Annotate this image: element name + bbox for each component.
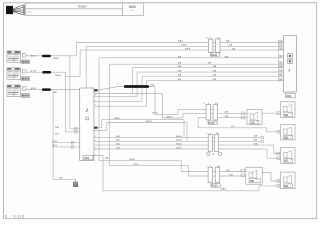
radio label box 261 [83, 155, 93, 159]
svg-text:3-113: 3-113 [14, 214, 25, 218]
svg-text:40A B: 40A B [221, 188, 227, 191]
svg-text:891: 891 [284, 136, 289, 139]
shielded section overdraw [124, 85, 149, 88]
svg-text:35A: 35A [116, 143, 120, 146]
amplifier icons [288, 54, 293, 58]
svg-text:25B B: 25B B [166, 116, 172, 118]
svg-text:16A B: 16A B [178, 39, 184, 42]
svg-text:35B: 35B [116, 147, 120, 149]
svg-text:180: 180 [250, 179, 255, 183]
amplifier pin bracket [278, 40, 280, 82]
speaker 180 rear [246, 167, 262, 184]
amplifier to rear harness S-links [99, 58, 284, 176]
radio right pins nest to amplifier [94, 68, 284, 107]
amplifier unit 319 [284, 36, 297, 92]
svg-text:R107: R107 [209, 121, 216, 125]
svg-text:179: 179 [250, 121, 255, 124]
svg-text:NT 8C: NT 8C [26, 12, 33, 14]
svg-text:319: 319 [286, 94, 291, 98]
tweeter 891 (right col 2) [281, 124, 296, 140]
svg-text:34B B: 34B B [146, 121, 152, 123]
svg-text:35B: 35B [213, 79, 217, 81]
svg-text:34B: 34B [213, 71, 217, 73]
connector block 863 (lower left feed) [7, 85, 30, 97]
wire radio pin2 to connector R107 [94, 94, 206, 119]
svg-text:34B: 34B [254, 140, 258, 142]
svg-text:R210: R210 [211, 53, 218, 57]
svg-text:34B: 34B [178, 71, 182, 73]
svg-text:25A: 25A [151, 84, 155, 87]
svg-text:35A B: 35A B [176, 143, 182, 146]
svg-text:25A B: 25A B [152, 112, 158, 115]
svg-text:890: 890 [284, 114, 289, 117]
svg-text:36B: 36B [208, 63, 212, 65]
radio top pin to antenna line [86, 46, 283, 88]
radio left pin boxes [75, 127, 77, 130]
svg-text:20A B: 20A B [53, 57, 59, 60]
speaker 179 front right [247, 109, 262, 124]
svg-text:35A: 35A [178, 74, 182, 77]
svg-text:34A: 34A [254, 135, 258, 138]
svg-text:31 B: 31 B [53, 141, 58, 143]
tweeter 890 (right col 1) [281, 102, 296, 118]
svg-text:25B: 25B [225, 116, 229, 118]
row C out wires [220, 172, 281, 182]
svg-text:20A: 20A [55, 126, 59, 129]
svg-text:5: 5 [95, 136, 96, 138]
harness logo [6, 5, 24, 16]
svg-text:261: 261 [84, 156, 89, 160]
svg-text:MH: MH [60, 178, 64, 180]
svg-text:892: 892 [284, 160, 289, 163]
svg-text:3: 3 [95, 148, 96, 150]
stub wire 38 into radio [52, 146, 80, 148]
radio knob circle [86, 117, 89, 120]
svg-text:♪: ♪ [85, 107, 88, 114]
svg-text:8: 8 [5, 214, 7, 218]
connector block 862 (middle left feed) [7, 68, 30, 81]
radio raised wires to R212 [94, 119, 187, 141]
svg-text:X64: X64 [129, 4, 137, 9]
svg-text:35B B: 35B B [176, 147, 182, 149]
svg-text:25A: 25A [225, 111, 229, 114]
svg-text:37A B: 37A B [129, 158, 135, 161]
shielded section on pin1 wire [124, 85, 149, 88]
svg-text:607 A: 607 A [30, 55, 36, 58]
svg-text:34A: 34A [178, 65, 182, 68]
svg-text:7: 7 [95, 100, 96, 102]
svg-text:34B: 34B [116, 140, 120, 142]
svg-text:35A: 35A [254, 142, 258, 145]
svg-text:6: 6 [95, 105, 96, 107]
radio bottom loop wire to rear tweeter [94, 156, 281, 191]
svg-text:4: 4 [95, 140, 96, 142]
svg-text:627 A: 627 A [30, 70, 36, 73]
svg-text:36B: 36B [178, 63, 182, 65]
radio to connector R212 wires [94, 137, 208, 149]
svg-text:20A: 20A [229, 43, 233, 46]
svg-text:34A: 34A [116, 135, 120, 138]
svg-text:34A: 34A [213, 65, 217, 68]
svg-text:40A: 40A [105, 157, 109, 160]
radio unit 261 [80, 88, 94, 161]
svg-text:♪: ♪ [288, 68, 291, 74]
svg-text:25C: 25C [231, 126, 235, 128]
connector block 861 (top left feed) [7, 51, 30, 64]
speaker 179 pin boxes [242, 112, 245, 115]
wire R107 to tweeter 891 [198, 118, 280, 132]
shielding splice on wire 613 [42, 88, 51, 91]
svg-text:RADIO: RADIO [78, 5, 88, 9]
svg-text:37B B: 37B B [133, 164, 139, 166]
svg-text:34A B: 34A B [176, 135, 182, 138]
svg-text:34A B: 34A B [114, 117, 120, 120]
shielding splice on wire 627 [42, 71, 51, 74]
ring terminals under R212 [207, 152, 210, 155]
svg-text:20A B: 20A B [181, 43, 187, 46]
svg-text:20B: 20B [55, 134, 59, 136]
svg-text:37A: 37A [226, 169, 230, 172]
svg-text:893: 893 [284, 185, 289, 188]
row A out wires to speaker 179 [218, 113, 281, 117]
svg-text:38 B: 38 B [53, 145, 58, 147]
svg-text:35A: 35A [213, 74, 217, 77]
connector R213 (rear) [208, 166, 219, 183]
svg-text:613 B: 613 B [30, 88, 36, 90]
title block [25, 3, 143, 16]
wire 607 from block 861 [25, 43, 283, 129]
ground MH [73, 179, 79, 182]
wire 627 from block 862 [25, 50, 283, 132]
shielding splice on wire 607 [42, 55, 51, 58]
speaker 893 (right col 4) [281, 172, 296, 189]
svg-text:37B: 37B [229, 174, 233, 176]
stub wire 31 into radio [52, 142, 80, 144]
svg-text:20B B: 20B B [55, 75, 61, 77]
svg-text:34B B: 34B B [176, 140, 182, 142]
wire radio pin1 to front-right via shield [98, 87, 206, 115]
svg-text:16B: 16B [232, 48, 236, 50]
connector R210 (top) [209, 37, 221, 52]
row B out wires [218, 137, 280, 158]
svg-text:16B B: 16B B [185, 48, 191, 50]
connector R107 (front right door) [206, 103, 218, 120]
radio pin 1 box [94, 89, 97, 91]
svg-text:35B: 35B [178, 79, 182, 81]
connector R212 (rear quarter) [208, 133, 218, 152]
svg-text:R213: R213 [212, 184, 219, 188]
svg-text:36A: 36A [178, 55, 182, 58]
svg-text:AR: AR [54, 91, 57, 94]
svg-text:36A: 36A [225, 55, 229, 58]
speaker 892 (right col 3) [281, 148, 296, 164]
wire 613 from block 863 [25, 90, 79, 180]
svg-text:8: 8 [95, 95, 96, 97]
svg-text:16A: 16A [226, 39, 230, 42]
